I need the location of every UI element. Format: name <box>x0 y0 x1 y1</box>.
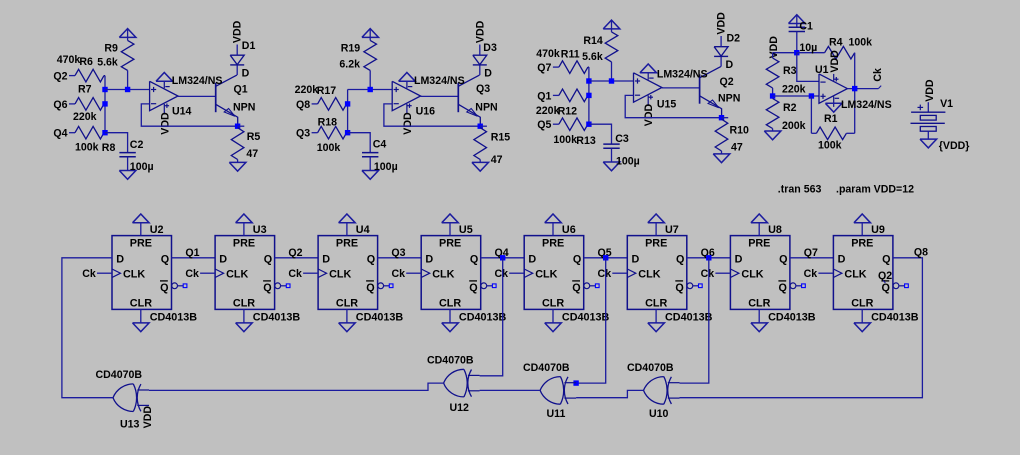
wire Ck to CLK of U9 <box>818 272 833 274</box>
svg-text:R7: R7 <box>78 84 92 96</box>
svg-text:Ck: Ck <box>598 268 612 280</box>
svg-text:100µ: 100µ <box>616 156 640 168</box>
net label Q5 <box>598 247 612 259</box>
ground flag (rotated) above R9 <box>119 29 136 41</box>
svg-text:Q4: Q4 <box>53 128 67 140</box>
wire Ck to CLK of U3 <box>200 272 215 274</box>
transistor Q2 NPN <box>700 67 722 118</box>
pin label Qbar of U4 <box>366 281 375 294</box>
ground under C3 <box>603 162 620 171</box>
Qbar stub of U9 <box>899 285 905 287</box>
ground on CLR of U3 <box>236 323 253 332</box>
net label Q3 <box>296 128 310 140</box>
wire VDD node to R4 <box>797 52 825 54</box>
junction divider node <box>770 93 775 98</box>
net label Q6 <box>53 99 67 111</box>
wire lead of R6 <box>69 75 75 77</box>
net label VDD (left rail) <box>768 36 780 59</box>
resistor R8 <box>75 126 105 139</box>
PRE pin stem of U6 <box>552 223 554 236</box>
svg-text:Q: Q <box>779 253 787 265</box>
Qbar bubble of U2 <box>172 283 178 289</box>
net label Q8 <box>914 246 928 258</box>
svg-text:10µ: 10µ <box>799 42 817 54</box>
junction Q4 tap <box>500 255 505 260</box>
open pin square of U8 <box>802 284 806 288</box>
pin label D of U5 <box>425 253 433 265</box>
label R19 <box>341 43 361 55</box>
svg-text:CLK: CLK <box>432 268 454 280</box>
label U16 <box>416 105 436 117</box>
label 6.2k <box>339 58 360 70</box>
svg-text:CD4013B: CD4013B <box>459 312 507 324</box>
wire R2 to ground <box>772 129 774 132</box>
label R2 <box>783 102 797 114</box>
svg-text:R2: R2 <box>783 102 797 114</box>
PRE pin stem of U9 <box>861 223 863 236</box>
pin label D of U8 <box>735 253 743 265</box>
Qbar stub of U8 <box>796 285 802 287</box>
wire node to op-amp + input <box>589 80 634 82</box>
open pin square of U6 <box>595 284 599 288</box>
junction at R9 foot <box>125 87 130 92</box>
net label VDD on bottom power pin of U14 <box>159 112 171 135</box>
svg-text:VDD: VDD <box>716 12 728 35</box>
resistor R1 <box>816 127 846 140</box>
pin label CLK of U6 <box>535 268 557 280</box>
label U15 <box>657 98 677 110</box>
ground under R15 <box>472 162 489 171</box>
Qbar stub of U5 <box>487 285 493 287</box>
pin label D of U7 <box>632 253 640 265</box>
svg-text:Ck: Ck <box>82 268 96 280</box>
svg-text:R19: R19 <box>341 43 361 55</box>
wire R15 to ground <box>479 160 481 163</box>
svg-text:D: D <box>838 253 846 265</box>
svg-text:CD4070B: CD4070B <box>96 369 143 381</box>
PRE pin stem of U4 <box>346 223 348 236</box>
net label Ck at U6 <box>494 268 508 280</box>
net label D at collector of Q1 <box>242 68 250 80</box>
label U2 <box>150 224 164 236</box>
wire diode D3 anode stub <box>479 45 481 56</box>
V1 plus mark <box>918 105 924 111</box>
svg-text:C1: C1 <box>799 21 813 33</box>
wire Ck to CLK of U4 <box>303 272 318 274</box>
svg-text:Ck: Ck <box>494 268 508 280</box>
svg-text:VDD: VDD <box>142 406 154 429</box>
svg-text:100k: 100k <box>849 36 873 48</box>
svg-text:R1: R1 <box>824 113 838 125</box>
label LM324/NS <box>841 99 892 111</box>
net label VDD on bottom power pin of U15 <box>643 103 655 126</box>
ground on CLR of U2 <box>133 323 150 332</box>
label CD4070B of U12 <box>427 355 474 367</box>
xor gate U12 CD4070B <box>444 369 480 397</box>
wire R1 tap down <box>810 96 812 133</box>
clock wedge of U6 <box>524 269 533 278</box>
label CD4013B of U2 <box>150 312 198 324</box>
svg-text:VDD: VDD <box>924 79 936 102</box>
wire flag to C1 <box>796 15 798 27</box>
wire diode D1 anode stub <box>236 45 238 56</box>
svg-text:Q: Q <box>572 282 580 294</box>
label U8 <box>768 224 782 236</box>
pin label Q of U4 <box>367 253 375 265</box>
svg-text:VDD: VDD <box>159 112 171 135</box>
label CD4013B of U7 <box>665 312 713 324</box>
pin label Qbar of U7 <box>675 281 684 294</box>
junction at R19 foot <box>368 87 373 92</box>
PRE pin stem of U2 <box>140 223 142 236</box>
svg-text:PRE: PRE <box>233 237 255 249</box>
wire stub right of emitter junction <box>480 125 487 127</box>
net label Q1 <box>185 247 199 259</box>
label CD4070B of U13 <box>96 369 143 381</box>
svg-text:Q: Q <box>882 282 890 294</box>
svg-text:6.2k: 6.2k <box>339 58 360 70</box>
junction node A <box>586 78 591 83</box>
net label Q7 <box>537 62 551 74</box>
wire node to op-amp + input <box>105 89 150 91</box>
svg-text:100k: 100k <box>553 134 577 146</box>
D flip-flop U6 CD4013B <box>524 236 584 310</box>
svg-text:PRE: PRE <box>748 237 770 249</box>
svg-text:V1: V1 <box>940 98 953 110</box>
svg-text:Q3: Q3 <box>391 247 405 259</box>
PRE pin stem of U5 <box>449 223 451 236</box>
CLR pin stem of U7 <box>655 309 657 323</box>
ground flag (rotated) above R14 <box>603 20 620 32</box>
net label Ck at U8 <box>701 268 715 280</box>
label NPN <box>233 102 255 114</box>
junction Q6 tap <box>706 255 711 260</box>
svg-text:CLR: CLR <box>233 297 255 309</box>
svg-text:CD4013B: CD4013B <box>356 312 404 324</box>
label U4 <box>356 224 370 236</box>
svg-text:U9: U9 <box>871 224 885 236</box>
pin label Qbar of U3 <box>263 281 272 294</box>
svg-text:R8: R8 <box>102 142 116 154</box>
Qbar bubble of U5 <box>481 283 487 289</box>
net label D at collector of Q3 <box>484 68 492 80</box>
open pin square of U2 <box>183 284 187 288</box>
net label VDD above D3 <box>474 20 486 43</box>
label R11 <box>561 49 580 61</box>
wire R1 left lead <box>811 132 816 134</box>
svg-text:NPN: NPN <box>718 92 740 104</box>
junction node C <box>345 130 350 135</box>
ground on CLR of U9 <box>854 323 871 332</box>
net label Q4 <box>495 247 509 259</box>
wire feedback from - input of U16 to emitter <box>384 104 480 126</box>
wire Q4 tap down to U12 <box>480 258 503 376</box>
pin label CLR of U7 <box>645 297 667 309</box>
Qbar bubble of U4 <box>378 283 384 289</box>
svg-text:100µ: 100µ <box>130 161 154 173</box>
net label Q4 <box>53 128 67 140</box>
junction node B <box>345 101 350 106</box>
pin label PRE of U4 <box>336 237 358 249</box>
svg-text:CLR: CLR <box>439 297 461 309</box>
pin label CLK of U7 <box>638 268 660 280</box>
svg-text:Q6: Q6 <box>53 99 67 111</box>
Qbar stub of U2 <box>178 285 184 287</box>
svg-text:R15: R15 <box>491 132 511 144</box>
svg-text:Q: Q <box>469 282 477 294</box>
label 220k <box>73 111 97 123</box>
ground flag (rotated) on PRE of U6 <box>545 214 562 223</box>
ground flag (rotated) above R19 <box>362 29 379 41</box>
pin label PRE of U2 <box>130 237 152 249</box>
resistor R2 <box>766 99 779 129</box>
svg-text:CD4013B: CD4013B <box>150 312 198 324</box>
net label Ck at U4 <box>288 268 302 280</box>
ground under R5 <box>229 162 246 171</box>
net label Q8 <box>296 99 310 111</box>
svg-text:220k: 220k <box>536 105 560 117</box>
ground flag (rotated) on PRE of U9 <box>854 214 871 223</box>
ground under R10 <box>713 154 730 163</box>
Qbar stub of U4 <box>384 285 390 287</box>
wire C4 to ground <box>369 157 371 171</box>
resistor R13 <box>559 118 589 131</box>
svg-text:Q1: Q1 <box>185 247 199 259</box>
wire Q7 from U8 to U9 <box>790 257 834 259</box>
Qbar bubble of U7 <box>687 283 693 289</box>
pin label Qbar of U8 <box>778 281 787 294</box>
svg-text:CLR: CLR <box>336 297 358 309</box>
resistor R19 <box>364 40 377 70</box>
label D2 <box>727 32 741 44</box>
pin label CLR of U8 <box>748 297 770 309</box>
capacitor C4 <box>362 153 378 157</box>
pin label Q of U5 <box>470 253 478 265</box>
label 220k <box>782 83 806 95</box>
wire stub right of emitter junction <box>238 125 245 127</box>
D flip-flop U4 CD4013B <box>318 236 378 310</box>
xor gate U13 CD4070B <box>113 384 149 412</box>
label 200k <box>782 120 806 132</box>
svg-text:U1: U1 <box>815 64 829 76</box>
wire C1 node down to - input of U1 <box>797 53 819 82</box>
label V1 <box>940 98 953 110</box>
wire R14 to node <box>611 62 613 81</box>
transistor Q1 NPN <box>216 75 238 126</box>
svg-text:CD4070B: CD4070B <box>427 355 474 367</box>
svg-text:CLR: CLR <box>748 297 770 309</box>
resistor R7 <box>75 98 105 111</box>
label NPN <box>475 101 497 113</box>
wire Q4 from U5 to U6 <box>481 257 525 259</box>
svg-text:Q1: Q1 <box>234 84 248 96</box>
pin label Qbar of U5 <box>469 281 478 294</box>
clock wedge of U2 <box>112 269 121 278</box>
pin label CLK of U9 <box>844 268 866 280</box>
wire VDD rail down to R3 <box>772 53 774 58</box>
svg-text:Ck: Ck <box>872 68 884 82</box>
pin label PRE of U9 <box>851 237 873 249</box>
wire R3 to divider node <box>772 88 774 96</box>
svg-text:R18: R18 <box>318 116 338 128</box>
wire Q1 from U2 to U3 <box>172 257 216 259</box>
ground flag on top power pin of U14 <box>156 73 173 82</box>
svg-text:R3: R3 <box>783 65 797 77</box>
PRE pin stem of U3 <box>243 223 245 236</box>
label R3 <box>783 65 797 77</box>
op-amp U14 LM324/NS <box>150 81 178 114</box>
net label VDD at V1 + <box>924 79 936 102</box>
wire lead of R13 <box>553 123 559 125</box>
pin label Q of U7 <box>676 253 684 265</box>
svg-text:U12: U12 <box>450 402 470 414</box>
ground flag (rotated) on PRE of U7 <box>648 214 665 223</box>
label 47 <box>491 154 503 166</box>
wire node to op-amp + input <box>348 89 393 91</box>
ground flag (rotated) on PRE of U2 <box>133 214 150 223</box>
diode D1 <box>230 55 244 65</box>
net label Q5 <box>537 119 551 131</box>
label C1 <box>799 21 813 33</box>
svg-text:CD4013B: CD4013B <box>665 312 713 324</box>
resistor R3 <box>766 58 779 88</box>
svg-text:Q3: Q3 <box>296 128 310 140</box>
pin label Qbar of U6 <box>572 281 581 294</box>
wire node line (U15 input node) <box>588 67 590 124</box>
svg-text:D: D <box>425 253 433 265</box>
ground flag (rotated) on PRE of U3 <box>236 214 253 223</box>
net label Ck at U3 <box>185 268 199 280</box>
svg-text:CLK: CLK <box>741 268 763 280</box>
label U13 <box>120 418 140 430</box>
D flip-flop U2 CD4013B <box>112 236 172 310</box>
svg-text:D3: D3 <box>483 42 497 54</box>
svg-text:PRE: PRE <box>130 237 152 249</box>
svg-text:U14: U14 <box>172 105 192 117</box>
wire R5 to ground <box>237 160 239 163</box>
label U7 <box>665 224 679 236</box>
svg-text:5.6k: 5.6k <box>582 51 603 63</box>
svg-text:CLR: CLR <box>542 297 564 309</box>
capacitor C2 <box>119 153 135 157</box>
label 220k <box>295 84 319 96</box>
clock wedge of U8 <box>730 269 739 278</box>
svg-text:Ck: Ck <box>185 268 199 280</box>
wire U13 output to U2 D input <box>62 258 113 398</box>
wire Ck to CLK of U2 <box>97 272 112 274</box>
svg-text:CD4013B: CD4013B <box>562 312 610 324</box>
junction emitter node <box>719 115 724 120</box>
wire lead of R18 <box>312 132 318 134</box>
svg-text:100k: 100k <box>317 142 341 154</box>
svg-text:47: 47 <box>731 141 743 153</box>
wire V1 top lead <box>927 102 929 112</box>
wire U10 output to U11 bottom input <box>576 390 643 397</box>
label 220k <box>536 105 560 117</box>
svg-text:PRE: PRE <box>851 237 873 249</box>
wire Ck to CLK of U5 <box>406 272 421 274</box>
clock wedge of U4 <box>318 269 327 278</box>
pin label CLK of U5 <box>432 268 454 280</box>
svg-text:Q: Q <box>882 253 890 265</box>
net label Q6 <box>701 247 715 259</box>
label C2 <box>130 139 144 151</box>
svg-text:Q: Q <box>366 282 374 294</box>
label 100k <box>317 142 341 154</box>
wire C1 to VDD node <box>796 32 798 53</box>
svg-text:Q: Q <box>367 253 375 265</box>
label CD4013B of U6 <box>562 312 610 324</box>
label LM324/NS <box>657 69 708 81</box>
svg-text:R13: R13 <box>576 135 596 147</box>
svg-text:Q7: Q7 <box>804 247 818 259</box>
svg-text:Q: Q <box>779 282 787 294</box>
label NPN <box>718 92 740 104</box>
D flip-flop U7 CD4013B <box>627 236 687 310</box>
open pin square of U7 <box>699 284 703 288</box>
svg-text:Q5: Q5 <box>537 119 551 131</box>
label R13 <box>576 135 596 147</box>
svg-text:D: D <box>242 68 250 80</box>
diode D2 <box>714 47 728 57</box>
svg-text:R10: R10 <box>730 125 750 137</box>
ground on CLR of U8 <box>751 323 768 332</box>
svg-text:NPN: NPN <box>233 102 255 114</box>
pin label D of U2 <box>116 253 124 265</box>
svg-text:U8: U8 <box>768 224 782 236</box>
directive .tran 563 <box>778 183 822 195</box>
svg-text:C4: C4 <box>373 138 387 150</box>
svg-text:Q2: Q2 <box>720 76 734 88</box>
wire R19 to node <box>369 70 371 89</box>
label 100k <box>75 141 99 153</box>
wire R10 to ground <box>721 151 723 154</box>
CLR pin stem of U4 <box>346 309 348 323</box>
svg-text:CLK: CLK <box>844 268 866 280</box>
op-amp U1 LM324/NS <box>819 74 847 107</box>
clock wedge of U5 <box>421 269 430 278</box>
label CD4070B of U11 <box>523 362 570 374</box>
Qbar bubble of U8 <box>790 283 796 289</box>
wire Q6 tap down to U10 <box>680 258 709 383</box>
wire op-amp output to Q3 base <box>421 95 459 97</box>
svg-text:R5: R5 <box>247 131 261 143</box>
svg-text:5.6k: 5.6k <box>97 57 118 69</box>
pin label D of U4 <box>322 253 330 265</box>
label R4 <box>829 36 843 48</box>
junction node C <box>586 122 591 127</box>
svg-text:CD4013B: CD4013B <box>768 312 816 324</box>
svg-text:D: D <box>219 253 227 265</box>
label CD4070B of U10 <box>627 362 674 374</box>
svg-text:CLK: CLK <box>638 268 660 280</box>
svg-text:Q: Q <box>573 253 581 265</box>
svg-text:Q2: Q2 <box>53 71 67 83</box>
label CD4013B of U3 <box>253 312 301 324</box>
D flip-flop U9 CD4013B <box>833 236 893 310</box>
wire diode D2 anode stub <box>720 36 722 47</box>
label Q2 <box>720 76 734 88</box>
wire node to capacitor C4 <box>348 133 371 153</box>
ground flag (rotated) above C1 <box>789 15 806 24</box>
capacitor C3 <box>603 144 619 148</box>
wire collector to diode D1 <box>236 65 238 75</box>
pin label PRE of U6 <box>542 237 564 249</box>
svg-text:CLK: CLK <box>535 268 557 280</box>
label 100µ <box>130 161 154 173</box>
svg-text:100µ: 100µ <box>374 161 398 173</box>
label U6 <box>562 224 576 236</box>
